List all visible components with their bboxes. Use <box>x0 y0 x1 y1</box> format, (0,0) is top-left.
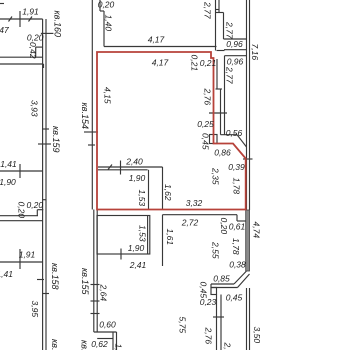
lower room east line2 <box>147 216 149 255</box>
tick y313.5 <box>91 313 100 315</box>
svg-text:0,21: 0,21 <box>200 58 217 68</box>
room divider y171 <box>0 170 43 172</box>
svg-text:4,15: 4,15 <box>103 87 113 104</box>
svg-text:3,32: 3,32 <box>186 198 203 208</box>
wall line y64 <box>0 63 44 65</box>
wall line y215.7 <box>0 215 38 217</box>
tick y301 <box>91 300 100 302</box>
dim tick x121 <box>120 249 122 260</box>
corridor wall west line1 <box>42 19 44 350</box>
top step vertical x100 <box>99 0 101 11</box>
outer wall east inner x246.5 <box>246 0 248 210</box>
svg-text:1,78: 1,78 <box>231 238 241 255</box>
svg-text:1,53: 1,53 <box>138 225 148 242</box>
svg-text:3,50: 3,50 <box>252 327 262 344</box>
pier box <box>211 288 217 295</box>
wall jog y199.7 <box>43 199 47 201</box>
svg-text:2,16: 2,16 <box>223 342 233 350</box>
landing box top y39 <box>224 38 247 40</box>
tick y159 <box>243 158 253 160</box>
svg-text:1,52: 1,52 <box>114 344 124 350</box>
svg-text:1,90: 1,90 <box>0 177 16 187</box>
svg-text:кв.156: кв.156 <box>80 340 90 350</box>
svg-text:0,86: 0,86 <box>214 148 231 158</box>
svg-text:5,75: 5,75 <box>178 317 188 334</box>
svg-text:1,53: 1,53 <box>137 190 147 207</box>
wall y214.7 <box>163 214 238 216</box>
svg-text:0,21: 0,21 <box>190 55 200 72</box>
svg-text:4,17: 4,17 <box>148 35 165 45</box>
wall corner x43.5 <box>43 64 45 68</box>
svg-text:0,45: 0,45 <box>201 133 211 150</box>
door jamb x219 <box>218 0 220 12</box>
chamfer lower line2 <box>238 274 250 288</box>
svg-text:1,91: 1,91 <box>22 7 39 17</box>
tick y89 <box>216 88 223 90</box>
long wall x92.3 <box>91 0 93 210</box>
wall x93.8 lower <box>93 210 95 333</box>
dim tick x20 top <box>19 11 21 27</box>
svg-text:кв.155: кв.155 <box>80 268 90 295</box>
wall tick y129 <box>42 128 49 130</box>
svg-text:1,47: 1,47 <box>0 25 9 35</box>
wall x221 south <box>220 295 222 350</box>
filled wall segment east <box>246 210 250 271</box>
svg-text:0,45: 0,45 <box>226 293 243 303</box>
svg-text:2,77: 2,77 <box>203 1 213 19</box>
jog horizontal y338.5 <box>97 338 113 340</box>
wall 4,17 y46.5 <box>104 46 217 48</box>
svg-text:0,62: 0,62 <box>91 339 108 349</box>
svg-text:1,78: 1,78 <box>232 178 242 195</box>
tick y132 <box>84 131 98 133</box>
svg-text:0,45: 0,45 <box>199 282 209 299</box>
wall x220.5 seg <box>220 89 222 135</box>
svg-text:кв.154: кв.154 <box>80 103 90 129</box>
svg-text:4,17: 4,17 <box>152 58 169 68</box>
svg-text:0,20: 0,20 <box>219 218 229 235</box>
apartment red outline <box>97 52 246 210</box>
svg-text:1,62: 1,62 <box>163 184 173 201</box>
svg-text:кв.158: кв.158 <box>50 263 60 289</box>
svg-text:2,76: 2,76 <box>204 327 214 345</box>
wall x217 seg <box>216 59 218 89</box>
svg-text:кв.160: кв.160 <box>53 11 63 37</box>
svg-text:1,61: 1,61 <box>165 229 175 246</box>
svg-text:3,95: 3,95 <box>30 301 40 318</box>
corridor wall west line2 <box>45 19 47 350</box>
room wall x148.5 <box>148 170 150 210</box>
wall tick y292 <box>42 293 49 295</box>
dim line 0,20 upper <box>41 32 54 34</box>
svg-text:0,38: 0,38 <box>229 260 246 270</box>
wall tick y144 <box>38 143 51 145</box>
dim tick x120.5 <box>120 161 122 175</box>
outer wall east outer x249.5 <box>249 0 251 210</box>
wall x162.5 lower <box>162 215 164 266</box>
room top double line1 <box>98 166 163 168</box>
tick y113 <box>209 112 227 114</box>
dim tick x20 low <box>19 249 21 269</box>
landing box bottom y49.7 <box>224 49 247 51</box>
dim tick x20 mid <box>19 164 21 178</box>
south wall line2 <box>211 287 238 289</box>
svg-text:2,76: 2,76 <box>203 88 213 106</box>
jog horizontal y332 <box>94 331 117 333</box>
room divider y262 <box>0 261 43 263</box>
wall line y57.2 <box>0 56 43 58</box>
room wall x162.5 upper <box>162 167 164 210</box>
facade x249.5 south <box>249 288 251 350</box>
svg-text:1,41: 1,41 <box>0 269 13 279</box>
tick slash a <box>9 17 13 22</box>
lower room outline <box>97 216 150 255</box>
svg-text:0,85: 0,85 <box>213 274 230 284</box>
tick slash b <box>29 17 33 22</box>
tick y145 <box>88 144 95 146</box>
svg-text:0,20: 0,20 <box>98 0 115 10</box>
tick y317 <box>213 316 224 318</box>
svg-text:0,60: 0,60 <box>99 320 116 330</box>
top step horizontal y11 <box>100 10 104 12</box>
connector x211 <box>210 284 212 288</box>
niche2 west edge <box>36 210 38 216</box>
facade x246.5 south <box>246 288 248 350</box>
svg-text:1,40: 1,40 <box>104 15 114 32</box>
wall top-left horizontal <box>0 18 43 20</box>
svg-text:1,41: 1,41 <box>0 159 17 169</box>
svg-text:0,20: 0,20 <box>27 32 44 42</box>
corridor bottom y134.7 <box>221 134 238 136</box>
svg-text:0,96: 0,96 <box>226 39 243 49</box>
south wall line1 <box>211 283 234 285</box>
svg-text:2,41: 2,41 <box>129 260 147 270</box>
svg-text:0,39: 0,39 <box>228 162 245 172</box>
jamb horizontal y12.5 <box>216 12 224 14</box>
wall tick y279 <box>37 279 44 281</box>
jog vertical x116.5 <box>116 332 118 350</box>
wall x215.5 top <box>215 0 217 51</box>
step horizontal y221 <box>237 220 247 222</box>
svg-text:0,42: 0,42 <box>28 42 38 59</box>
chamfer black <box>237 135 247 147</box>
corridor top y55.7 <box>225 55 248 57</box>
jog vertical x113 <box>112 332 114 350</box>
corner stub top-left <box>0 3 4 5</box>
tick slash room <box>108 165 112 170</box>
room top double line2 <box>98 169 148 171</box>
svg-text:2,55: 2,55 <box>211 241 221 259</box>
vent box <box>210 135 218 144</box>
chamfer lower line1 <box>234 271 247 284</box>
svg-text:4,74: 4,74 <box>252 222 262 239</box>
wall x97.2 lower <box>96 210 98 333</box>
jamb tick y9.5 <box>216 9 220 11</box>
svg-text:кв.157: кв.157 <box>50 339 60 350</box>
niche2 top edge <box>37 209 43 211</box>
svg-text:2,64: 2,64 <box>99 284 109 302</box>
corridor west x224.5 <box>224 56 226 135</box>
wall x216.5 south <box>216 295 218 350</box>
niche top edge <box>36 46 43 48</box>
top step vertical x104 <box>103 11 105 47</box>
svg-text:2,77: 2,77 <box>225 66 235 84</box>
svg-text:7,16: 7,16 <box>250 44 260 61</box>
svg-text:1,90: 1,90 <box>128 243 145 253</box>
wall line y220.7 <box>0 220 43 222</box>
svg-text:0,96: 0,96 <box>227 57 244 67</box>
svg-text:0,61: 0,61 <box>229 222 246 232</box>
tick y284.5 <box>91 284 100 286</box>
svg-text:0,20: 0,20 <box>17 202 27 219</box>
svg-text:2,35: 2,35 <box>211 167 221 185</box>
svg-text:2,72: 2,72 <box>181 218 199 228</box>
svg-text:1,91: 1,91 <box>19 250 36 260</box>
svg-text:0,23: 0,23 <box>200 297 217 307</box>
svg-text:3,93: 3,93 <box>30 100 40 117</box>
svg-text:1,90: 1,90 <box>129 173 146 183</box>
step vertical x237 <box>236 215 238 221</box>
svg-text:0,56: 0,56 <box>226 128 243 138</box>
svg-text:0,20: 0,20 <box>27 200 44 210</box>
svg-text:2,77: 2,77 <box>225 21 235 39</box>
svg-text:кв.159: кв.159 <box>51 126 61 152</box>
svg-text:2,40: 2,40 <box>125 157 143 167</box>
stub y50.5 <box>217 50 225 52</box>
wall x223.5 <box>223 13 225 40</box>
svg-text:0,25: 0,25 <box>197 119 214 129</box>
niche west edge <box>35 47 37 57</box>
